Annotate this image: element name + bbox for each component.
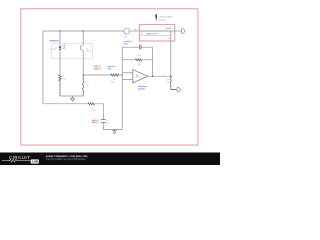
dashed optocoupler box <box>51 43 92 58</box>
resistor R8 <box>88 103 95 105</box>
ground left <box>70 96 75 101</box>
capacitor C1 <box>140 45 141 50</box>
red selection box <box>140 25 175 41</box>
resistor R7 <box>83 75 84 96</box>
resistor R5 <box>111 74 119 76</box>
feedback left vertical + input column <box>119 47 126 129</box>
svg-text:Low Pass: Low Pass <box>124 41 132 43</box>
wire bottom bar left section <box>60 93 83 100</box>
wire C2 to bottom <box>103 122 122 129</box>
note icon <box>155 14 157 19</box>
red border frame <box>21 9 198 145</box>
svg-text:TEMT6000: TEMT6000 <box>49 41 58 43</box>
wire left vertical <box>40 31 47 104</box>
feedback top wire <box>122 44 152 51</box>
svg-text:for power: for power <box>159 20 167 22</box>
svg-text:LAB: LAB <box>32 160 39 164</box>
output wire <box>148 73 171 80</box>
LED lower wire <box>57 49 64 74</box>
junction dot output-R1 <box>170 75 172 77</box>
minus input stub <box>122 69 133 76</box>
svg-text:http://circuitlab.com/c6yy5t4b: http://circuitlab.com/c6yy5t4brtd8wq <box>46 158 86 161</box>
transistor Q1 <box>77 46 84 50</box>
svg-text:+: + <box>133 79 134 81</box>
plus input stub <box>122 76 133 83</box>
wire tee to R5 <box>83 72 110 79</box>
LED D2 <box>59 47 61 50</box>
output flag bottom <box>177 87 181 92</box>
junction dot rail-LED <box>59 30 61 32</box>
wire R8 to C2 <box>95 104 104 120</box>
wire top rail right of source <box>130 28 142 35</box>
wire box to flag <box>171 28 181 35</box>
wire R5 to junction <box>119 72 122 79</box>
feedback mid wire <box>122 56 152 63</box>
probe tail <box>167 31 174 76</box>
resistor R1 <box>170 76 177 89</box>
wire bottom horizontal to R8 <box>43 100 88 107</box>
black footer bar <box>0 153 220 166</box>
Q1 emitter lead <box>80 50 87 75</box>
op-amp OA1 <box>133 70 148 83</box>
junction dot emitter tee <box>82 74 84 76</box>
svg-text:CIRCUIT: CIRCUIT <box>9 155 30 160</box>
voltage source V2 <box>124 28 130 34</box>
feedback right vertical <box>149 47 156 76</box>
LED light arrows <box>63 45 65 49</box>
output flag top <box>182 29 186 34</box>
resistor R6 <box>59 75 61 97</box>
wire top rail left <box>43 28 124 35</box>
junction dot rail-Q1 <box>82 30 84 32</box>
junction dot minus node <box>121 74 123 76</box>
LED D2 vertical wire upper <box>57 31 64 47</box>
wire through box <box>141 28 171 35</box>
resistor R4 <box>136 59 143 61</box>
capacitor C2 <box>101 120 106 123</box>
Q1 collector lead <box>80 31 87 45</box>
junction dot feedback-output <box>152 75 154 77</box>
Antenna Vin box <box>141 31 171 36</box>
ground bottom <box>112 130 116 134</box>
